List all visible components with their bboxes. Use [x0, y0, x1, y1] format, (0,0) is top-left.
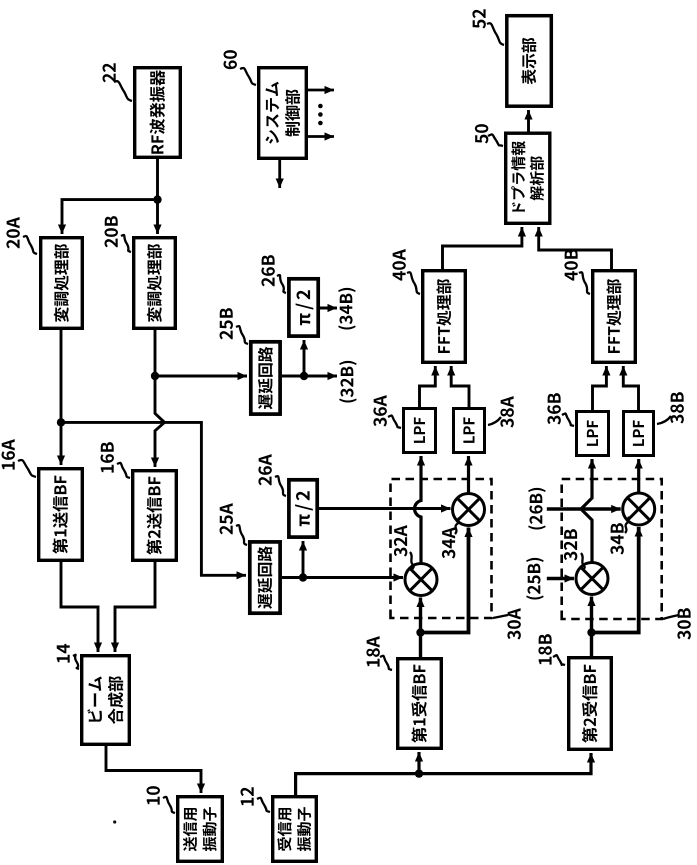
- label 25A: [220, 503, 247, 545]
- label (34B): [338, 288, 356, 330]
- stray dot: [113, 820, 116, 823]
- wire FFT40B to 50: [535, 227, 612, 269]
- junction 20B out: [151, 372, 159, 380]
- wire branch to 18A: [415, 752, 423, 774]
- wire 14 to transducer 10: [106, 746, 205, 793]
- label 20A: [6, 217, 37, 254]
- box 20A modulation processor (変調処理部): [41, 238, 83, 329]
- wire 25B down to (32B): [282, 372, 337, 380]
- wire 25A to pi/2 26A: [299, 541, 307, 578]
- box 16B second transmit BF (第2送信BF): [133, 471, 177, 561]
- wire 25A to mixer 32A: [282, 573, 403, 581]
- wire LPF36A to FFT40A: [420, 366, 440, 407]
- junction 18B out: [587, 628, 595, 636]
- label 14: [57, 644, 79, 669]
- sys ctrl arrow 2: [305, 132, 334, 140]
- label 52: [472, 9, 504, 45]
- box 25B delay circuit (遅延回路): [251, 342, 280, 414]
- wire mixer 34A to LPF 38A: [464, 456, 472, 494]
- label (25B): [526, 558, 544, 600]
- wire branch RF to 20A: [58, 200, 158, 234]
- wire mixer 32B to LPF 36B with chevron hop: [581, 459, 596, 563]
- box 26B pi/2 shifter: [289, 279, 318, 336]
- label (32B): [339, 361, 357, 403]
- box 20B modulation processor (変調処理部): [134, 238, 176, 329]
- box 16A first transmit BF (第1送信BF): [39, 469, 83, 561]
- label 34B: [610, 517, 629, 555]
- junction on RF line: [153, 195, 161, 203]
- label 30A: [493, 608, 521, 639]
- wire LPF38B to FFT40B: [619, 366, 638, 410]
- junction 25A out: [299, 573, 307, 581]
- box 14 beam synthesizer (ビーム合成部): [82, 656, 130, 745]
- wire 18B branch to mixer 34B: [592, 527, 643, 633]
- label 12: [241, 787, 270, 812]
- label 26B: [261, 255, 286, 293]
- wire branch to delay 25A: [61, 422, 246, 579]
- mixer 34A: [453, 494, 485, 526]
- label 20B: [105, 216, 131, 252]
- wire (26B) stub to mixer 34B: [547, 505, 621, 513]
- box 40A FFT processor (FFT処理部): [423, 271, 466, 363]
- wire 16A to 14: [61, 562, 102, 652]
- box 18B second receive BF (第2受信BF): [569, 658, 612, 750]
- label 26A: [258, 454, 286, 496]
- box 36B LPF: [577, 412, 609, 456]
- wire branch to delay 25B: [155, 372, 247, 380]
- box 22 RF-wave oscillator (RF波発振器): [135, 68, 181, 158]
- dashed box 30A quadrature detector: [391, 479, 492, 618]
- label 40A: [392, 249, 420, 294]
- wire (25B) stub to mixer 32B: [547, 574, 574, 582]
- wire 18B to mixer 32B: [587, 597, 595, 657]
- junction 20A out: [57, 418, 65, 426]
- label 25B: [220, 308, 248, 344]
- label 18B: [538, 634, 565, 665]
- box 60 system control (システム制御部): [259, 68, 307, 159]
- wire 26A to mixer 34A: [319, 504, 451, 512]
- wire 20B to 16B with hop: [151, 330, 165, 467]
- label 38A: [488, 396, 514, 427]
- box 40B FFT processor (FFT処理部): [593, 271, 636, 363]
- box 18A first receive BF (第1受信BF): [398, 659, 442, 749]
- box 36A LPF: [404, 409, 436, 453]
- wire transducer 12 to 18B: [296, 753, 595, 795]
- mixer 32A: [405, 564, 437, 596]
- wire 25B to pi/2 26B: [300, 340, 308, 376]
- dashed box 30B quadrature detector: [562, 479, 662, 619]
- box 50 Doppler info analyzer (ドプラ情報解析部): [506, 133, 550, 223]
- wire 16B to 14: [111, 562, 155, 652]
- label 36A: [373, 395, 401, 428]
- label 40B: [564, 249, 590, 294]
- label 30B: [663, 608, 691, 639]
- wire LPF38A to FFT40A: [447, 366, 469, 407]
- label 16B: [101, 442, 130, 478]
- box 38A LPF: [454, 409, 485, 453]
- mixer 34B: [623, 493, 655, 525]
- wire 20A to 16A: [57, 330, 65, 465]
- label 32B: [564, 529, 585, 570]
- wire 18A to mixer 32A: [416, 598, 424, 658]
- junction receive line: [415, 769, 423, 777]
- wire LPF36B to FFT40B: [593, 366, 611, 410]
- label 38B: [657, 392, 684, 424]
- wire FFT40A to 50: [443, 227, 527, 269]
- sys ctrl ellipsis dots: [318, 104, 323, 126]
- label 36B: [547, 393, 574, 426]
- mixer 32B: [576, 563, 608, 595]
- wire 50 to display 52: [524, 110, 532, 132]
- label 16A: [2, 439, 36, 477]
- wire 18A branch to mixer 34A: [421, 528, 473, 633]
- label 32A: [394, 525, 414, 571]
- box 38B LPF: [624, 412, 654, 456]
- sys ctrl arrow left: [276, 160, 284, 188]
- junction 18A out: [416, 628, 424, 636]
- box 52 display (表示部): [507, 16, 552, 107]
- label 10: [147, 786, 175, 813]
- box 10 transmit transducer (送信用振動子): [178, 797, 223, 862]
- wire 26B down to (34B): [320, 304, 337, 312]
- label 34A: [442, 518, 459, 559]
- wire RF22 to 20B: [153, 159, 161, 234]
- label 60: [224, 50, 256, 85]
- label (26B): [528, 488, 546, 530]
- label 18A: [366, 636, 392, 670]
- box 12 receive transducer (受信用振動子): [273, 797, 317, 862]
- box 26A pi/2 shifter: [289, 480, 317, 537]
- wire mixer 32A to LPF 36A with hop: [415, 456, 426, 564]
- wire mixer 34B to LPF 38B: [635, 459, 643, 493]
- label 50: [475, 124, 503, 146]
- box 25A delay circuit (遅延回路): [250, 542, 280, 613]
- sys ctrl arrow 1: [305, 86, 334, 94]
- junction 25B out: [300, 372, 308, 380]
- label 22: [103, 63, 132, 101]
